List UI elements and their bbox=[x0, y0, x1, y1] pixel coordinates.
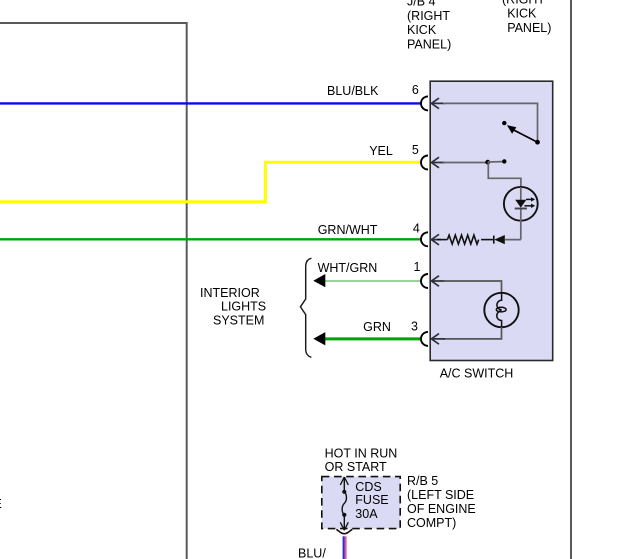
fuse element bbox=[340, 477, 348, 530]
svg-text:PANEL): PANEL) bbox=[507, 21, 551, 35]
connector arc pin 3 bbox=[421, 332, 428, 346]
wire junction down to LED bbox=[488, 163, 521, 189]
svg-text:YEL: YEL bbox=[369, 144, 393, 158]
bulb circle bbox=[484, 293, 518, 327]
fuse lower dot bbox=[342, 513, 346, 517]
svg-text:KICK: KICK bbox=[507, 7, 537, 21]
wire diode to LED branch bbox=[505, 239, 521, 241]
connector arc pin 4 bbox=[421, 232, 428, 246]
arrow to interior lights system (pin 3 wire) bbox=[313, 332, 325, 345]
svg-text:E: E bbox=[0, 497, 2, 511]
junction dot bbox=[485, 160, 490, 165]
LED circle bbox=[504, 187, 538, 221]
pin 6 internal arrow bbox=[431, 98, 445, 109]
wire: top border of left junction block bbox=[0, 22, 188, 24]
svg-text:OF ENGINE: OF ENGINE bbox=[407, 502, 476, 516]
wire: left vertical junction-block line bbox=[186, 22, 188, 559]
LED emission arrow lower bbox=[524, 205, 531, 207]
svg-text:6: 6 bbox=[412, 83, 419, 97]
wire: right page border line bbox=[570, 0, 572, 559]
switch fixed contact dot bbox=[502, 121, 506, 125]
svg-text:4: 4 bbox=[413, 222, 420, 236]
open contact dot bbox=[502, 159, 506, 163]
svg-text:COMPT): COMPT) bbox=[407, 516, 456, 530]
wire BLU/BLK to pin 6 bbox=[0, 102, 422, 104]
svg-text:A/C SWITCH: A/C SWITCH bbox=[440, 367, 514, 381]
svg-text:(LEFT SIDE: (LEFT SIDE bbox=[407, 488, 474, 502]
LED diode triangle bbox=[515, 200, 526, 208]
svg-text:CDS: CDS bbox=[355, 480, 381, 494]
pin 3 internal arrow bbox=[431, 334, 445, 345]
svg-text:INTERIOR: INTERIOR bbox=[200, 286, 260, 300]
svg-text:FUSE: FUSE bbox=[355, 493, 388, 507]
wire pin 5 to junction bbox=[443, 162, 488, 164]
svg-text:PANEL): PANEL) bbox=[407, 38, 451, 52]
svg-text:BLU/: BLU/ bbox=[298, 546, 326, 559]
node INTERIOR LIGHTS SYSTEM label bbox=[200, 286, 266, 328]
svg-text:5: 5 bbox=[412, 143, 419, 157]
wire pin 4 to resistor bbox=[437, 239, 447, 241]
svg-text:GRN/WHT: GRN/WHT bbox=[318, 223, 378, 237]
svg-text:3: 3 bbox=[411, 320, 418, 334]
pin 4 internal arrow bbox=[431, 234, 441, 245]
fuse CDS FUSE 30A dashed box bbox=[322, 477, 400, 529]
pin 5 internal arrow bbox=[431, 157, 445, 168]
node (RIGHT KICK PANEL) label bbox=[502, 0, 551, 35]
pin 1 internal arrow bbox=[431, 276, 445, 287]
svg-text:J/B 4: J/B 4 bbox=[407, 0, 436, 9]
node R/B 5 (LEFT SIDE OF ENGINE COMPT) label bbox=[407, 474, 476, 530]
node HOT IN RUN OR START label bbox=[325, 447, 398, 475]
connector arc pin 5 bbox=[421, 156, 428, 170]
svg-text:OR START: OR START bbox=[325, 460, 387, 474]
svg-text:WHT/GRN: WHT/GRN bbox=[318, 261, 378, 275]
svg-text:HOT IN RUN: HOT IN RUN bbox=[325, 447, 398, 461]
wire GRN/WHT to pin 4 bbox=[0, 238, 421, 240]
LED emission arrow upper bbox=[526, 198, 531, 200]
svg-text:KICK: KICK bbox=[407, 23, 437, 37]
wire GRN from pin 3 bbox=[320, 337, 421, 340]
fuse upper dot bbox=[342, 490, 346, 494]
svg-text:GRN: GRN bbox=[363, 320, 391, 334]
svg-text:1: 1 bbox=[414, 260, 421, 274]
fuse bottom arrow bbox=[343, 515, 345, 530]
svg-text:R/B 5: R/B 5 bbox=[407, 474, 438, 488]
switch pivot dot bbox=[535, 140, 540, 145]
connector cup below fuse box bbox=[336, 529, 352, 533]
wire BLU/RED down from fuse bbox=[343, 536, 345, 559]
fuse top arrow bbox=[340, 477, 348, 485]
wire pin 6 to switch bbox=[443, 103, 538, 140]
A/C SWITCH box bbox=[430, 81, 553, 360]
wire junction to open contact bbox=[488, 161, 503, 163]
switch blade with arrowhead bbox=[513, 129, 538, 142]
wire through LED bbox=[520, 187, 522, 200]
connector arc pin 6 bbox=[421, 96, 428, 110]
node J/B 4 (RIGHT KICK PANEL) label bbox=[407, 0, 451, 52]
wire WHT/GRN from pin 1 bbox=[320, 280, 421, 282]
arrow to interior lights system (pin 1 wire) bbox=[313, 274, 325, 287]
resistor bbox=[447, 235, 478, 244]
brace for interior lights system bbox=[300, 258, 311, 357]
svg-text:SYSTEM: SYSTEM bbox=[213, 313, 264, 327]
wire resistor to diode bbox=[481, 239, 494, 241]
fuse S-curve bbox=[342, 492, 346, 515]
wire bulb to pin 3 bbox=[443, 327, 502, 339]
connector arc pin 1 bbox=[421, 274, 428, 288]
svg-text:BLU/BLK: BLU/BLK bbox=[327, 84, 379, 98]
LED cathode bar bbox=[515, 208, 527, 210]
label CDS FUSE 30A bbox=[355, 480, 388, 521]
svg-text:30A: 30A bbox=[355, 507, 378, 521]
svg-text:(RIGHT: (RIGHT bbox=[407, 9, 450, 23]
wire YEL to pin 5 bbox=[0, 162, 422, 201]
wire pin 1 to bulb bbox=[443, 281, 502, 293]
diode triangle bbox=[494, 235, 505, 244]
svg-text:LIGHTS: LIGHTS bbox=[221, 299, 266, 313]
bulb filament bbox=[497, 293, 502, 327]
diode cathode bar bbox=[493, 236, 495, 244]
